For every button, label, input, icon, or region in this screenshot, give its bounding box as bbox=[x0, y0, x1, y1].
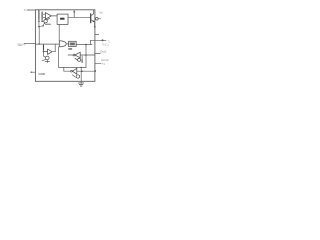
oscillator U2 box bbox=[57, 14, 68, 24]
svg-text:Comp: Comp bbox=[17, 42, 25, 46]
node E (rail junction) bbox=[39, 43, 40, 44]
wire I1 diagonal down-left bbox=[44, 23, 46, 25]
node H (junction dot y55) bbox=[85, 54, 87, 56]
wire diagonal from I2 down-left bbox=[42, 59, 45, 60]
wire U1 input + bbox=[43, 13, 45, 15]
wire node B to current source circle bbox=[42, 20, 44, 22]
op-amp U3 (lower comparator) bbox=[48, 49, 53, 54]
wire feedback vertical from gate down bbox=[58, 47, 60, 68]
wire node A down bbox=[38, 21, 40, 26]
node K (dot on U7 input wire) bbox=[81, 70, 83, 72]
wire U5 output to right bbox=[76, 44, 92, 46]
svg-text:T2: T2 bbox=[102, 62, 106, 66]
svg-text:Vs: Vs bbox=[99, 11, 103, 15]
wire vertical bus x86 bbox=[85, 45, 87, 68]
wire R1 bottom to node A bbox=[38, 19, 40, 21]
resistor R1 bbox=[38, 11, 40, 20]
wire pin stub with arrow (y40) bbox=[91, 39, 107, 41]
op-amp U1 (input comparator) bbox=[45, 13, 51, 20]
wire U6 output bbox=[68, 54, 73, 56]
ground bar 3 bbox=[80, 85, 82, 87]
bubble U7 bbox=[71, 70, 73, 72]
label dash above U6 bbox=[68, 48, 72, 49]
wire ground drop bbox=[80, 67, 82, 83]
wire I2 bottom bbox=[46, 60, 48, 61]
wire OUT stub bbox=[98, 18, 101, 20]
Q1 emitter stroke bbox=[91, 20, 95, 22]
wire Q1 collector to top rail bbox=[93, 10, 95, 14]
pin bubble OUT bbox=[96, 18, 99, 21]
node D (dot on right edge, emitter) bbox=[94, 26, 96, 28]
pin stub left bottom bbox=[31, 71, 35, 73]
current source I4 (circle) bbox=[76, 75, 79, 78]
arrowhead down bbox=[81, 60, 83, 62]
gate U4 (AND) bbox=[59, 41, 66, 47]
wire I1 down to node C2 bbox=[43, 23, 44, 25]
wire node F down bbox=[43, 52, 45, 57]
wire horizontal rail y67 bbox=[59, 66, 86, 68]
pin stub y54 bbox=[95, 53, 100, 55]
ground bar 2 bbox=[79, 84, 82, 86]
svg-text:Out1: Out1 bbox=[100, 49, 107, 53]
arrowhead on y40 pin wire bbox=[102, 39, 105, 41]
Q1 collector stroke bbox=[91, 14, 94, 16]
U5 internal hatch line 1 bbox=[70, 42, 75, 44]
Q1 emitter arrowhead bbox=[93, 20, 95, 22]
ground bar 1 bbox=[79, 82, 84, 84]
wire U2 output right bbox=[68, 16, 90, 18]
filter U5 box bbox=[69, 41, 77, 46]
dot at left stub end bbox=[31, 72, 32, 73]
node G (junction dot) bbox=[85, 44, 87, 46]
node I (dot on right edge) bbox=[94, 70, 96, 72]
pin stub right y63 bbox=[95, 62, 101, 64]
wire I1 to U1 lower input bbox=[47, 18, 50, 20]
wire U1 input - bbox=[43, 17, 45, 19]
IC outline box bbox=[35, 10, 95, 82]
wire U7 output to elbow bbox=[64, 70, 71, 72]
bar under I2 bbox=[45, 60, 49, 62]
wire U3 output elbow up to rail bbox=[52, 51, 55, 53]
U2 internal label blob bbox=[60, 18, 64, 20]
inverter U7 (left-pointing, bottom) bbox=[72, 68, 76, 74]
wire node C2 to node C bbox=[40, 25, 43, 28]
wire U4 output bbox=[66, 43, 68, 45]
transistor Q1 base bar bbox=[90, 14, 92, 23]
node C2 (junction dot) bbox=[42, 25, 44, 27]
U5 internal hatch line 3 bbox=[70, 43, 74, 45]
node L (dot on rail y67) bbox=[81, 67, 82, 68]
node B (junction dot under R2) bbox=[41, 20, 43, 22]
wire elbow up from U5 output wire bbox=[90, 40, 92, 44]
wire U1 output to oscillator box bbox=[51, 15, 57, 17]
wire receiver input y54 to right edge bbox=[80, 54, 95, 56]
wire R2 bottom to node B bbox=[41, 19, 43, 21]
switch S1 (diagonal lever) bbox=[75, 58, 78, 60]
resistor R3 bbox=[43, 44, 45, 45]
wire stub up to Vs rail with arrowhead bbox=[73, 12, 75, 18]
switch S2 (diagonal lever) bbox=[72, 75, 75, 77]
wire node F to U3 input bbox=[44, 51, 48, 53]
node C (junction dot) bbox=[38, 26, 40, 28]
node F (dot under R3) bbox=[43, 51, 45, 53]
U5 internal hatch line 2 bbox=[70, 44, 75, 46]
wire Q1 emitter down to edge bbox=[94, 22, 96, 27]
svg-text:GND: GND bbox=[38, 72, 46, 76]
wire arrow down (I3 bias) bbox=[81, 56, 83, 60]
node J (dot under arrow) bbox=[81, 61, 83, 63]
resistor R2 bbox=[41, 12, 43, 19]
current source I1 (circle) bbox=[44, 20, 47, 23]
wire elbow down to U7 bubble bbox=[63, 67, 65, 71]
svg-text:RxD1: RxD1 bbox=[102, 42, 109, 46]
wire U2 bottom down to gate bbox=[58, 24, 60, 41]
label Comp underline (second text row) bbox=[18, 45, 22, 47]
current source I2 (circle) bbox=[46, 56, 50, 60]
current source I3 (circle) bbox=[78, 58, 81, 61]
wire to current source I2 bbox=[44, 56, 46, 57]
node A (junction dot under R1) bbox=[38, 20, 40, 22]
wire mid rail bbox=[35, 43, 59, 45]
wire vertical rail node C down to mid rail bbox=[38, 27, 40, 44]
bar under I1 bbox=[47, 23, 51, 25]
inverter U6 (left-pointing) bbox=[75, 52, 80, 58]
bubble U6 bbox=[73, 54, 75, 56]
wire from TxD label to top-left corner bbox=[28, 9, 35, 11]
wire stub below I2 bar bbox=[46, 61, 48, 62]
wire from label to left edge bbox=[24, 42, 35, 44]
pin stub y34 bbox=[95, 33, 99, 35]
svg-text:Gnd2: Gnd2 bbox=[101, 58, 109, 62]
wire U7 input to right edge bbox=[77, 70, 95, 72]
